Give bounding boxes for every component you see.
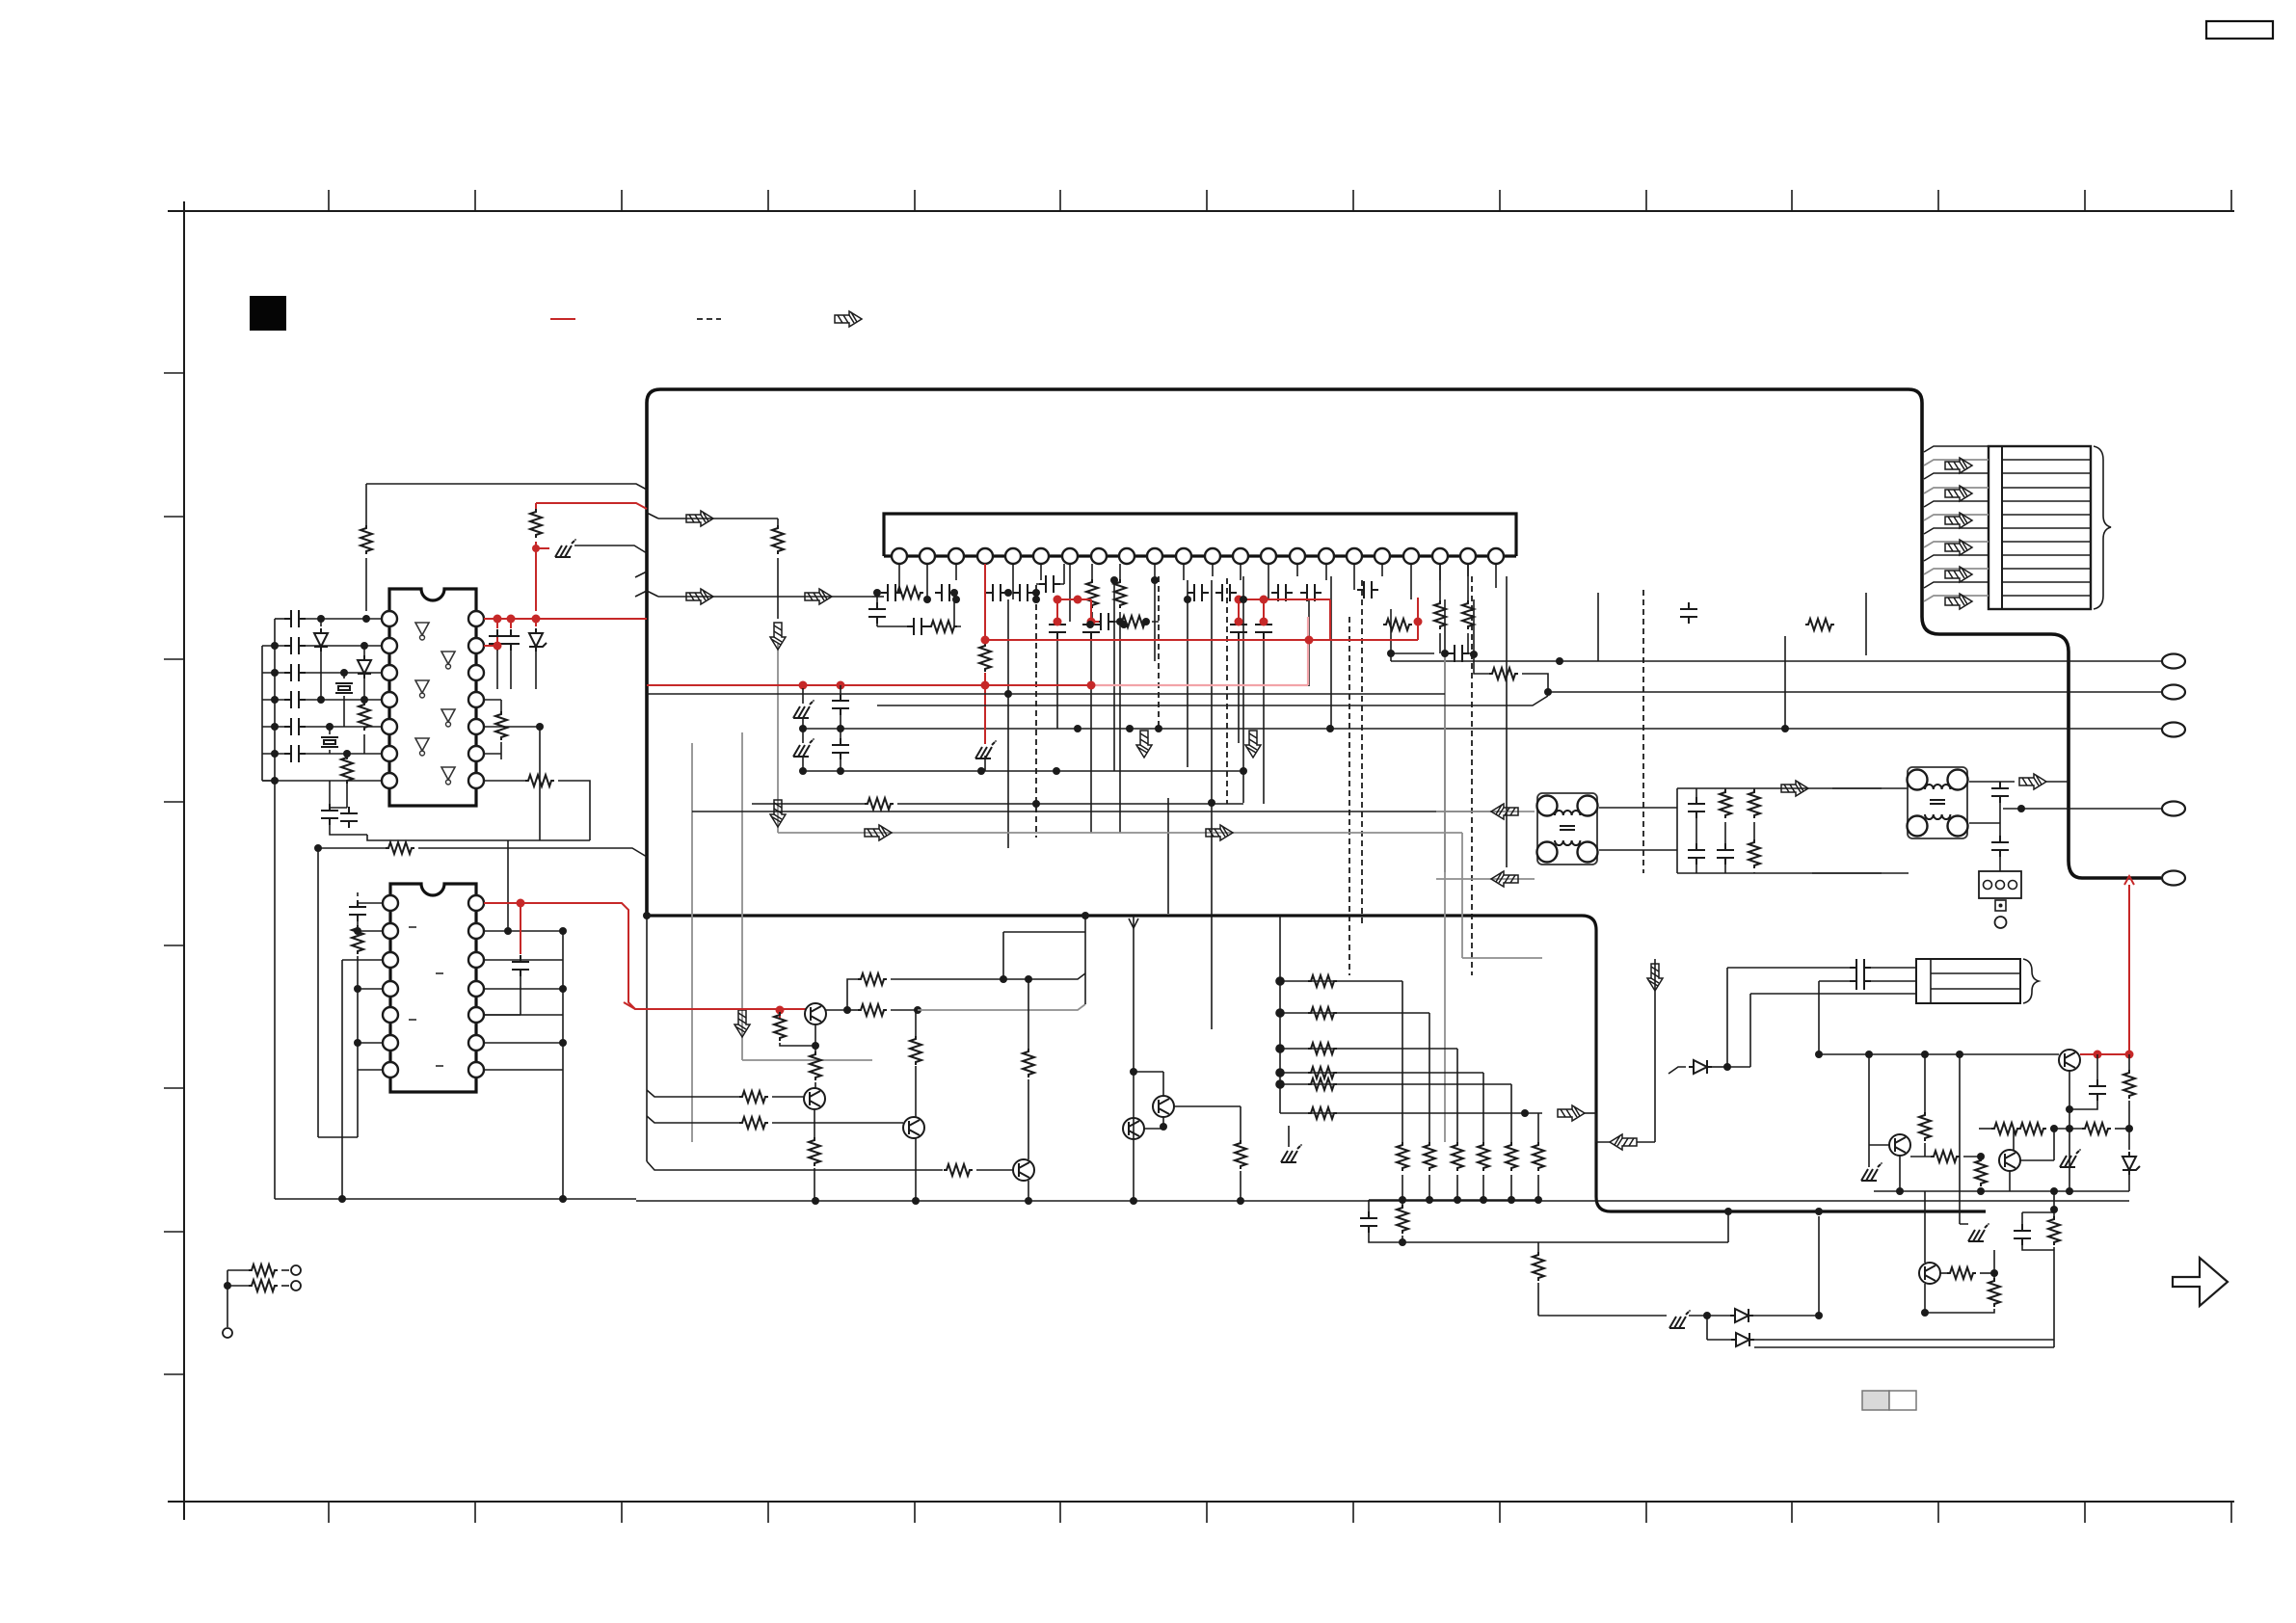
IC2 right vertical bus (562, 931, 564, 1199)
legend dashed sample line (697, 318, 721, 320)
red row to Q8 (2080, 1053, 2129, 1055)
resistor R307 (1397, 1142, 1408, 1171)
resistor R406 (1975, 1157, 1987, 1186)
resistor under cap (357, 921, 359, 927)
IC2 right pin wires (484, 931, 563, 1070)
IC2 left pins wires (358, 989, 383, 1070)
resistor R314 (1533, 1252, 1544, 1281)
resistor R313 (1397, 1205, 1408, 1234)
chassis ground G6 (793, 738, 814, 757)
cap to oval4 (1969, 822, 2000, 824)
Q6/Q7 link wires (1134, 1072, 1163, 1129)
resistor R309 (1452, 1142, 1463, 1171)
transistor Q8 (2059, 1050, 2080, 1071)
wire rails to TF2 (1812, 788, 1882, 873)
red pin1 right bus (484, 618, 647, 620)
wire entry bus y=502 (366, 484, 647, 490)
gray split box (1862, 1391, 1889, 1410)
IC501 pins (892, 548, 1504, 564)
Q3 base row (647, 1116, 739, 1123)
vertical from block (1133, 916, 1135, 1201)
capacitor C216 (1230, 618, 1247, 639)
red stub cap (520, 903, 521, 954)
resistor R206 (1383, 619, 1412, 630)
resistor right of pair (1174, 1106, 1241, 1142)
resistor R302 (1308, 1007, 1337, 1019)
hatched arrow right A9 (865, 825, 892, 840)
diode D12 (363, 646, 365, 655)
chassis ground G4 (1968, 1223, 1989, 1241)
capacitor C202 (935, 584, 956, 601)
big arrow bottom right (2173, 1258, 2228, 1306)
resistor R201 (928, 621, 957, 632)
caps bottom pair (329, 781, 331, 804)
capacitor C211 (1357, 581, 1378, 599)
resistor R311 (1506, 1142, 1517, 1171)
resistor R306 (1308, 1107, 1337, 1119)
zener ZD11 (535, 619, 537, 626)
transistor Q2 (804, 1088, 825, 1109)
wire to block bottom line (1818, 1216, 1820, 1316)
long vertical mid (1167, 798, 1169, 914)
Q1 collector wire (826, 1009, 847, 1011)
top row of cluster (1819, 1053, 2059, 1055)
capacitor C212 (868, 602, 886, 624)
bus y=715 (647, 693, 1445, 695)
capacitor C204 (1013, 584, 1034, 601)
resistor R305 (1308, 1078, 1337, 1090)
terminal oval T3 (2162, 723, 2185, 737)
resistor R210 (865, 798, 894, 810)
resistor left of Q9 (1910, 1156, 1931, 1157)
crystal X11 (343, 673, 345, 678)
crystal X12 (329, 727, 331, 734)
resistor R205 (1114, 579, 1126, 608)
hatched arrow down A8 (734, 1010, 750, 1037)
connector CN501 pin rows (2002, 460, 2091, 596)
cap at IC2 pin1 (358, 892, 383, 903)
hatched arrow down A5 (1245, 731, 1261, 758)
connector CN501 key divider (2001, 446, 2003, 609)
wire T2 lead (1548, 691, 2162, 693)
cap C15 (262, 726, 284, 728)
wire red entry y=522 (536, 503, 647, 509)
capacitor C401 (2089, 1079, 2106, 1101)
transformer TF2 (1908, 767, 1968, 838)
Q2 base row (647, 1090, 739, 1097)
ground right portion dots (1896, 1187, 2073, 1195)
bank bottom bus (1369, 1199, 1538, 1201)
capacitor C214 (1049, 618, 1066, 639)
Q5 collector chain (1028, 1079, 1029, 1159)
chassis symbol near IC1 top (536, 547, 549, 549)
stub vertical to open terminal (227, 1270, 228, 1327)
resistor R409 (1947, 1267, 1976, 1279)
comp column 3 (1749, 789, 1760, 818)
resistor on pin4 right (484, 700, 501, 713)
capacitor C217 (1255, 618, 1272, 639)
connector lead arrows (1945, 458, 1972, 473)
chassis ground G1 (1669, 1310, 1691, 1328)
hatched arrow left A3 (1610, 1134, 1637, 1150)
left cap column bus (274, 619, 276, 781)
resistor R312 (1533, 1142, 1544, 1171)
wire IC1 bottom to bus (367, 727, 590, 840)
connector CN501 brace (2094, 446, 2111, 609)
resistor R207 (1805, 619, 1834, 630)
upper resistor row y=1016 (847, 979, 858, 1010)
dots on ground (314, 844, 567, 1203)
capacitor C213 (907, 618, 928, 635)
comp column 1 caps (1688, 797, 1705, 818)
border frame top line (168, 210, 2234, 212)
pin drop wires (899, 564, 1496, 661)
vertical w/ down arrow (1654, 959, 1656, 1142)
IC2 internal op-amp dashes (409, 927, 443, 1066)
cap C14 (262, 699, 284, 701)
wire T4 lead (2003, 808, 2162, 810)
wrap wires to CN2 (1727, 968, 1916, 1067)
IC1 internal inverters (415, 623, 455, 785)
resistor R204 (1086, 579, 1098, 608)
transistor Q11 (1919, 1263, 1940, 1284)
hatched arrow right of TF2 (2019, 774, 2046, 789)
red vertical from T5 (2124, 876, 2134, 1054)
cap C12 (262, 645, 284, 647)
red feed bus (624, 1002, 806, 1009)
screw terminal under switch (1995, 900, 2006, 911)
resistor R11 (363, 700, 365, 704)
bus y=871 dots (778, 833, 1542, 958)
left outer bus (262, 646, 275, 781)
wire Q11 row left (1754, 1346, 2054, 1348)
resistor R308 (1424, 1142, 1435, 1171)
chassis ground G3 (1861, 1162, 1882, 1181)
wire T3 lead (803, 728, 2162, 730)
frame ticks bottom (329, 1502, 2231, 1523)
connector CN2 body (1916, 959, 2020, 1003)
hatched arrow down A1 (1647, 964, 1663, 991)
comp column 2 (1720, 789, 1731, 818)
transistor Q9 (1999, 1150, 2020, 1171)
cap C16 (262, 753, 284, 755)
cap C11 (275, 618, 284, 620)
hatched arrow right A2 (1558, 1105, 1585, 1121)
arrow out right (1511, 1112, 1542, 1114)
resistor R on red vert (535, 503, 537, 509)
capacitor C301 (1360, 1211, 1377, 1233)
wire into caps row (872, 596, 884, 598)
left edge wire bottom chamfer (647, 1161, 943, 1170)
Q2 emitter down (814, 1109, 815, 1140)
IC2 left bus (318, 848, 358, 1137)
legend black square (250, 296, 286, 331)
capacitor C210 (1300, 584, 1322, 601)
wire pin5 right (484, 726, 540, 728)
red pin2 stub (484, 634, 497, 646)
cap at bank left (1368, 1200, 1370, 1211)
red dot IC2 (517, 899, 525, 908)
resistor R208 (1434, 600, 1446, 629)
resistor R402 (1991, 1123, 2020, 1134)
cap below TF2 (1991, 836, 2009, 857)
capacitor C404 (1850, 972, 1871, 990)
hatched arrow after rails (1781, 781, 1808, 796)
resistor R404 (2082, 1123, 2111, 1134)
row y=1171 (1979, 1128, 1991, 1130)
capacitor C402 (2014, 1224, 2031, 1245)
diode D303 (1689, 1060, 1712, 1074)
IC1 body (389, 589, 476, 806)
lower section block outline (647, 916, 1986, 1211)
diode D301 (1730, 1309, 1753, 1322)
red bus y=706 (647, 684, 1091, 686)
wire up from IC2 right bus (507, 840, 509, 931)
transistor Q1 (805, 1003, 826, 1024)
connector CN2 brace (2023, 959, 2039, 1003)
wire T1 lead (1391, 660, 2162, 662)
connector CN501 leads (1924, 446, 1989, 601)
red bus y=664 (985, 598, 1418, 640)
wire block left edge continuation (646, 916, 648, 1161)
Q3 emitter (915, 1138, 917, 1201)
transistor Q7 (1123, 1118, 1144, 1139)
chassis ground G5 (793, 700, 814, 718)
border frame bottom line (168, 1501, 2234, 1503)
resistor on red stub (779, 1010, 781, 1018)
capacitor C221 (1448, 645, 1469, 662)
gray long vertical (1444, 654, 1446, 1142)
resistor pin7 right long (484, 780, 525, 782)
capacitor C218 (1680, 602, 1697, 624)
hatched arrow into block top (647, 513, 658, 519)
upper section block outline (647, 389, 2161, 916)
series cap on 678 wire (1391, 652, 1434, 654)
IC2 pin2 wire (342, 931, 383, 1199)
IC501 body bar (884, 514, 1516, 556)
resistor R405 (1931, 1151, 1960, 1162)
capacitor C208 (1215, 584, 1237, 601)
switch SW block (1979, 871, 2021, 898)
terminal oval T2 (2162, 685, 2185, 700)
ground long wire y=1244 (275, 1198, 636, 1200)
bus y=833 (752, 803, 865, 805)
diode D11 (320, 619, 322, 626)
transistor Q6 (1153, 1096, 1174, 1117)
connector CN2 divider (1931, 959, 2020, 1003)
chassis ground G2 (2060, 1149, 2081, 1167)
red caps right of IC1 (497, 619, 511, 628)
hatched down arrow on gray drop (777, 644, 779, 833)
resistor R410 (1989, 1278, 2000, 1307)
terminal oval T1 (2162, 654, 2185, 669)
bridge wires from block (1003, 916, 1085, 1004)
diode feeding top row (1669, 1067, 1686, 1074)
Q1 emitter chain (814, 1024, 816, 1054)
cap C13 (262, 672, 284, 674)
resistor R401 (2123, 1070, 2135, 1099)
capacitor C207 (1188, 584, 1209, 601)
resistor R above IC1 (365, 484, 367, 525)
cap under red dot (2096, 1054, 2098, 1079)
capacitor C201 (881, 584, 902, 601)
hatched arrow down A4 (1136, 731, 1152, 758)
legend hatched arrow sample (835, 311, 862, 327)
resistor R407 (1919, 1112, 1931, 1141)
transistor Q5 (1013, 1159, 1034, 1181)
capacitor C219 (832, 694, 849, 715)
junction dots IC1 left (271, 615, 370, 785)
wire bank to right (1538, 1241, 1728, 1243)
red dots (799, 596, 1423, 690)
connector CN501 body (1989, 446, 2091, 609)
resistor R304 (1308, 1067, 1337, 1078)
hatched arrow right A10 (1206, 825, 1233, 840)
hatched arrows into TF1 (1436, 811, 1535, 879)
wire above IC2 (318, 847, 386, 849)
resistor RB to open terminal (227, 1285, 249, 1287)
terminal oval T5 (2162, 871, 2185, 886)
resistor R203 (1119, 616, 1148, 627)
Q3 collector up (915, 1066, 917, 1117)
TF1 right to rails (1599, 808, 1677, 850)
border frame left line (183, 201, 185, 1520)
ground bus y=1246 (636, 1200, 2129, 1202)
capacitor C215 (1082, 618, 1100, 639)
resistor under red vert (2128, 1054, 2130, 1072)
resistor R303 (1308, 1043, 1337, 1054)
resistor R301 (1308, 975, 1337, 987)
bus y=842 (692, 811, 1507, 867)
resistor R209 (1462, 600, 1474, 629)
Q5 emitter (1028, 1181, 1029, 1201)
Q8 emitter down (2069, 1071, 2070, 1191)
zener ZD401 (2122, 1152, 2140, 1175)
resistor inside block left (658, 519, 778, 525)
capacitor C205 (1039, 575, 1060, 593)
cap+res pair below (2053, 1191, 2055, 1212)
page label box top-right (2206, 21, 2273, 39)
hatched arrow down A6 (770, 623, 786, 650)
hatched arrow into block mid (647, 591, 872, 597)
resistor R12 (346, 754, 348, 759)
long verticals in block (1008, 576, 1866, 1029)
pink bus continuation (1091, 617, 1308, 685)
red vertical pin4 (984, 564, 986, 646)
bus y=732 (877, 696, 1548, 705)
chassis ground G7 (975, 740, 997, 758)
legend red sample line (550, 318, 575, 320)
transistor Q3 (903, 1117, 924, 1138)
capacitor C203 (986, 584, 1007, 601)
resistor R310 (1478, 1142, 1489, 1171)
bus y=771 gray (691, 743, 693, 1142)
terminal oval T4 (2162, 802, 2185, 816)
resistor R403 (2017, 1123, 2046, 1134)
diode D302 (1731, 1333, 1754, 1346)
node red junction (532, 545, 540, 552)
junction dots under IC (799, 576, 1789, 807)
resistor R211 (1489, 668, 1518, 679)
red cluster caps pins 5-6 (1057, 599, 1099, 622)
block-left wire stubs (635, 572, 647, 597)
wire pin7 left (262, 780, 382, 782)
capacitor C206 (1094, 613, 1115, 630)
rails top/bottom (1677, 788, 1909, 873)
chassis right of pair (1281, 1144, 1302, 1162)
transistor Q10 (1889, 1134, 1910, 1156)
resistor row y=1048 (847, 1009, 858, 1011)
red from IC2 pin1 (484, 903, 780, 1009)
transformer TF1 (1537, 793, 1598, 865)
dot pin5 (536, 723, 544, 731)
frame ticks top (329, 190, 2231, 211)
capacitor C403 (1850, 959, 1871, 976)
capacitor C220 (832, 738, 849, 759)
dashed verticals (1036, 576, 1643, 975)
resistor R408 (2048, 1216, 2060, 1245)
resistor RA to open terminal (227, 1269, 249, 1271)
Q5 base row resistor (944, 1164, 973, 1176)
IC2 body (390, 884, 476, 1092)
resistor R202 (894, 587, 923, 599)
red dots IC1 right (494, 615, 541, 651)
red cluster right pins 13-14 (1239, 599, 1330, 640)
hatched arrow down A7 (770, 800, 786, 827)
frame ticks left (164, 373, 184, 1374)
capacitor C209 (1271, 584, 1293, 601)
IC1 pins left/right (382, 611, 484, 788)
bus y=800 (803, 770, 1243, 772)
